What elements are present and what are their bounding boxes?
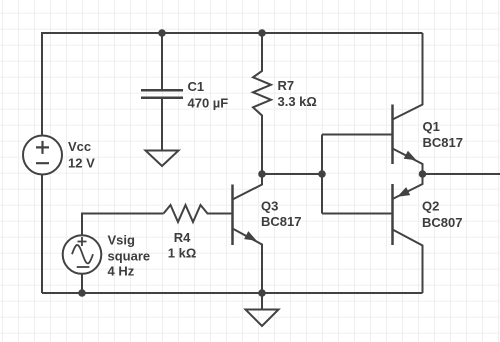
node junction Q3 emitter ground <box>258 289 266 297</box>
wire output <box>423 173 500 175</box>
svg-text:Vsig: Vsig <box>108 233 136 248</box>
svg-text:4 Hz: 4 Hz <box>108 264 135 279</box>
svg-text:Q1: Q1 <box>423 119 440 134</box>
wire Vsig top lead <box>82 214 164 236</box>
wire C1 top lead <box>161 33 163 89</box>
capacitor C1 <box>141 90 183 98</box>
wire ground stem <box>261 293 263 310</box>
svg-text:470 µF: 470 µF <box>188 96 229 111</box>
voltage source Vcc <box>23 136 62 175</box>
svg-text:BC817: BC817 <box>261 214 301 229</box>
svg-text:BC817: BC817 <box>423 135 463 150</box>
wire Vsig bottom lead <box>81 274 83 293</box>
svg-text:Q3: Q3 <box>261 198 278 213</box>
node junction Vsig ground <box>78 289 86 297</box>
svg-text:3.3 kΩ: 3.3 kΩ <box>278 94 317 109</box>
wire C1 bottom lead <box>161 98 163 151</box>
svg-text:Q2: Q2 <box>422 199 439 214</box>
svg-text:Vcc: Vcc <box>68 139 91 154</box>
node junction top C1 <box>158 29 166 37</box>
svg-text:R7: R7 <box>278 78 295 93</box>
svg-text:square: square <box>108 249 151 264</box>
voltage source Vsig <box>63 235 102 274</box>
wire left rail bottom <box>41 175 43 293</box>
svg-text:1 kΩ: 1 kΩ <box>168 246 197 261</box>
node junction top R7 <box>258 29 266 37</box>
resistor R4 <box>164 205 233 222</box>
node junction output <box>419 170 427 178</box>
node junction Q3 collector <box>258 170 266 178</box>
wire Q2 base <box>322 213 393 215</box>
transistor Q2 <box>393 174 423 293</box>
wire R7 bottom to node <box>262 173 322 175</box>
wire bottom rail <box>42 292 423 294</box>
svg-text:R4: R4 <box>174 230 191 245</box>
wire top rail <box>42 33 423 136</box>
ground below Q3 <box>246 310 279 327</box>
wire base split vertical <box>321 135 323 214</box>
svg-text:BC807: BC807 <box>422 215 462 230</box>
svg-text:C1: C1 <box>188 79 205 94</box>
transistor Q3 <box>233 174 263 293</box>
ground below C1 <box>146 151 179 167</box>
node junction base split <box>318 170 326 178</box>
resistor R7 <box>253 33 271 174</box>
svg-text:12 V: 12 V <box>68 156 95 171</box>
transistor Q1 <box>393 33 423 174</box>
wire Q1 base <box>322 134 393 136</box>
